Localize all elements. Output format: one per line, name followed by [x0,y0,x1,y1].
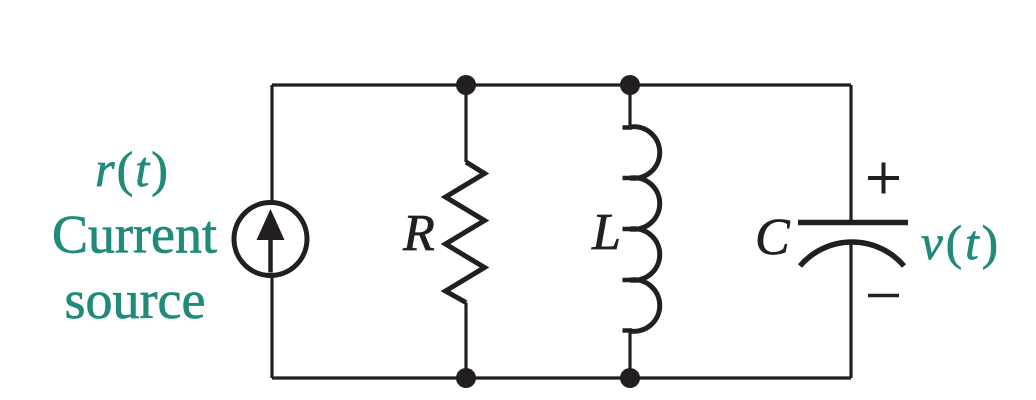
svg-text:r(t): r(t) [95,141,170,197]
svg-text:Current: Current [52,205,217,265]
svg-text:v(t): v(t) [921,215,1001,270]
svg-text:C: C [755,209,791,266]
svg-text:L: L [591,204,621,261]
svg-text:R: R [402,205,435,262]
svg-text:source: source [65,270,206,330]
